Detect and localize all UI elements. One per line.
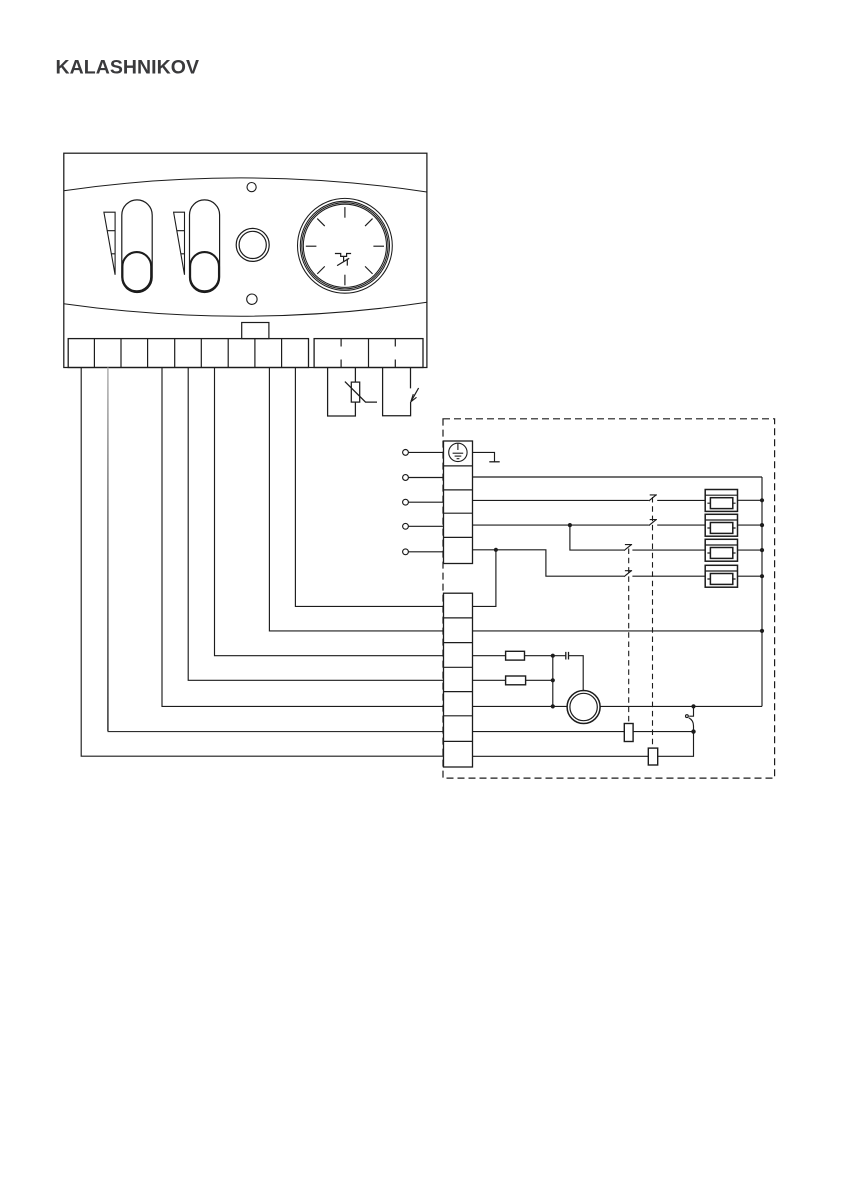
control panel outline <box>64 153 427 367</box>
junction bus heater 1 <box>760 498 764 502</box>
external terminal circle 2 <box>403 475 409 481</box>
wire W2 gray segment <box>107 368 109 732</box>
external terminal circle 5 <box>403 549 409 555</box>
knob <box>236 228 269 261</box>
wire W3 <box>162 368 443 707</box>
capacitor C1 <box>566 652 569 660</box>
line D with step to heater 4 <box>473 550 625 576</box>
dashed enclosure box <box>443 419 775 778</box>
junction on line C <box>568 523 572 527</box>
line B to heater 1 <box>473 499 649 501</box>
wire W5 <box>215 368 444 656</box>
PE terminal symbol <box>449 443 467 461</box>
screw bottom <box>247 294 257 304</box>
external terminal circle 4 <box>403 523 409 529</box>
resistor R1 <box>506 651 525 660</box>
contact K4 <box>624 571 632 577</box>
junction switch lower <box>691 729 695 733</box>
resistor R2 <box>506 676 526 685</box>
heater E3 <box>705 539 737 561</box>
wire W6 <box>269 368 443 631</box>
junction motor line left <box>551 704 555 708</box>
heater E1 <box>705 490 737 512</box>
switch S1 wedge indicator <box>104 212 115 275</box>
junction motor line right <box>691 704 695 708</box>
junction bus heater 3 <box>760 548 764 552</box>
lower line 2 to bus <box>473 630 763 632</box>
wire W7 <box>295 368 443 607</box>
line A neutral bus feed <box>473 476 763 478</box>
rocker switch S2 button <box>190 252 219 291</box>
external terminal circle 3 <box>403 499 409 505</box>
dashed linkage 1 <box>628 549 630 724</box>
junction on line D <box>494 548 498 552</box>
switch S2 wedge indicator <box>174 212 185 275</box>
ground wire <box>473 452 495 461</box>
dial tick marks <box>306 207 384 285</box>
panel face bottom curve <box>64 302 427 316</box>
lower line 4 <box>473 679 506 681</box>
dial center thermostat icon <box>335 254 351 266</box>
dashed linkage 2 <box>652 497 654 748</box>
rocker switch S2 <box>190 200 220 293</box>
heater E2 <box>705 514 737 536</box>
lower line 7 <box>473 732 694 757</box>
actuator F2 <box>648 748 657 765</box>
junction bus heater 4 <box>760 574 764 578</box>
thermistor RT1 <box>351 382 359 402</box>
lower line 3 <box>473 655 506 657</box>
line C to heater 2 <box>473 524 649 526</box>
terminal strip right block <box>314 339 423 368</box>
motor M1 <box>567 691 600 724</box>
wire W4 <box>188 368 443 681</box>
contact K3 <box>624 544 632 550</box>
junction bus heater 2 <box>760 523 764 527</box>
contact K2 <box>649 519 657 525</box>
junction vertical <box>552 656 554 707</box>
rocker switch S1 button <box>122 252 151 291</box>
branch to heater 3 <box>570 525 624 550</box>
ground symbol <box>489 461 499 463</box>
svg-text:KALASHNIKOV: KALASHNIKOV <box>56 57 200 79</box>
junction bus lower <box>760 629 764 633</box>
wire W1 <box>81 368 443 757</box>
right bus <box>761 477 763 706</box>
rocker switch S1 <box>122 200 152 293</box>
flow switch arrow head <box>411 394 417 402</box>
junction R1 output <box>551 654 555 658</box>
terminal block lower <box>444 593 473 767</box>
terminal block upper <box>444 441 473 564</box>
NTC sensor loop wire <box>328 368 356 417</box>
flow switch loop wire <box>383 368 411 416</box>
lower line 5 motor line <box>473 705 763 707</box>
junction R2 output <box>551 678 555 682</box>
heater E4 <box>705 565 737 587</box>
terminal strip left block <box>68 339 308 368</box>
panel face top curve <box>64 178 427 192</box>
lower line 6 <box>473 731 694 733</box>
external terminal circle 1 <box>403 450 409 456</box>
pressure switch contact <box>689 706 693 716</box>
wire W2 <box>108 731 444 733</box>
screw top <box>247 183 256 192</box>
contact K1 <box>649 495 657 501</box>
terminal strip tab <box>242 323 269 339</box>
flow switch blade <box>411 388 419 402</box>
thermostat dial <box>298 198 393 293</box>
link upper block to lower block <box>473 550 496 607</box>
actuator F1 <box>624 724 633 742</box>
